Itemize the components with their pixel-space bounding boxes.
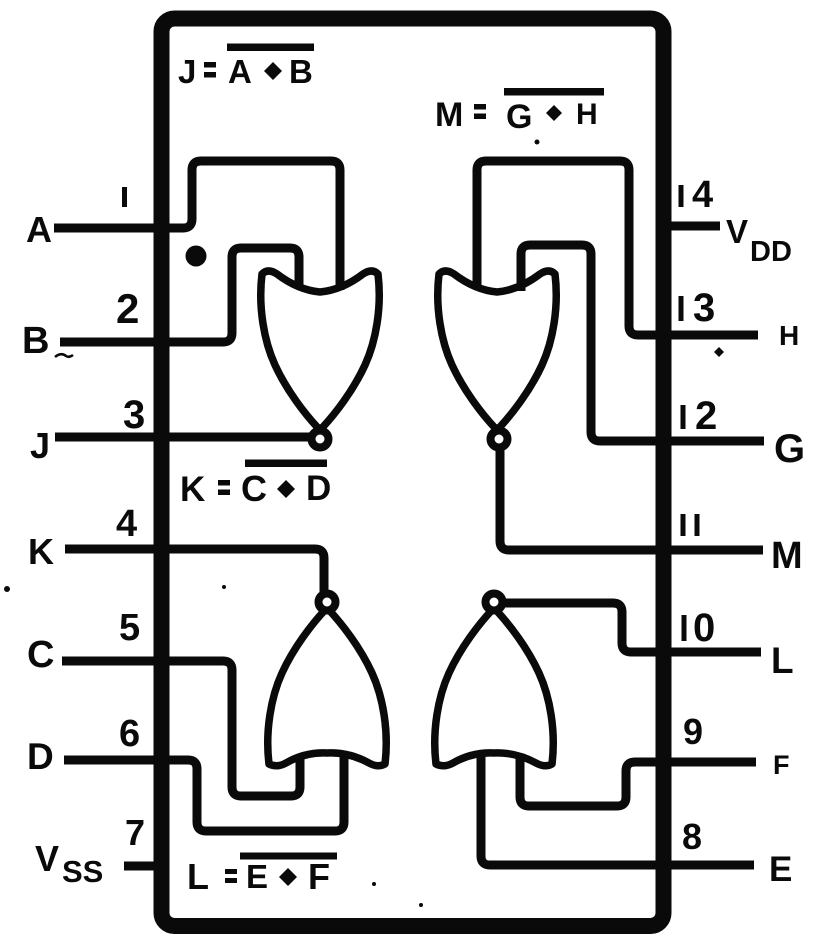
svg-text:SS: SS [62,854,103,889]
equation L = E+F [187,853,337,898]
svg-text:E: E [246,858,268,895]
svg-text:V: V [726,213,748,250]
svg-text:J: J [30,425,50,466]
svg-text:0: 0 [693,606,715,650]
package outline [162,19,664,927]
node marker dot near pin1 [186,246,207,267]
wire pin11 M output [500,446,763,550]
pin number 12 [683,394,717,438]
svg-text:2: 2 [116,285,139,332]
svg-text:3: 3 [693,286,715,330]
stray speck bottom2 [419,903,423,907]
svg-text:4: 4 [116,503,137,545]
stray speck left margin [4,586,10,592]
pin number 10 [684,606,715,650]
svg-text:C: C [27,634,54,676]
svg-text:H: H [779,320,799,351]
svg-text:5: 5 [119,607,140,649]
svg-text:6: 6 [119,713,140,755]
pin label VSS [35,838,103,889]
stray diamond speck under H wire [714,347,724,357]
svg-text:D: D [306,469,331,508]
wire pin6 D input [64,756,344,831]
svg-text:8: 8 [682,816,702,857]
stray speck inside left [222,585,226,589]
bubble U1 output [312,431,329,448]
svg-text:K: K [180,470,205,509]
svg-text:G: G [774,427,805,471]
stray speck top middle [535,140,540,145]
equation M = G+H [435,88,604,136]
svg-text:DD: DD [750,236,792,268]
svg-text:M: M [435,96,463,134]
svg-text:G: G [506,98,532,136]
pin label VDD [726,213,792,268]
equation J = A+B [178,44,314,91]
bubble U2 output [491,431,508,448]
svg-text:7: 7 [125,812,145,853]
svg-text:L: L [187,856,209,897]
pin number 13 [681,286,715,330]
pin number 14 [681,174,713,216]
stray mark tilde under B [55,354,73,357]
NOR gate U4 body [435,610,553,766]
svg-text:E: E [769,850,792,889]
NOR gate U2 body [438,271,556,428]
svg-text:F: F [308,856,330,897]
wire pin13 H input [477,161,758,335]
svg-text:F: F [773,750,790,780]
wire pin10 L output [502,603,761,652]
NOR gate U1 body [261,271,379,428]
bubble U3 output [319,594,336,611]
svg-text:H: H [576,98,598,131]
wire pin9 F input [520,754,756,806]
wire pin4 K output [65,549,324,596]
svg-text:L: L [771,640,794,681]
svg-text:J: J [178,53,196,90]
svg-text:M: M [771,535,803,577]
svg-text:C: C [241,468,267,509]
svg-text:A: A [26,209,52,250]
bubble U4 output [486,594,503,611]
svg-text:9: 9 [683,711,703,752]
svg-text:A: A [228,53,252,90]
wire pin12 G input [521,245,764,441]
equation K = C+D [180,460,331,510]
pin number 11 [683,514,697,536]
pin number 1 [122,187,127,207]
wire pin3 J output [55,433,312,442]
wire pin1 A input [54,161,340,290]
wire pin7 VSS stub [124,862,164,871]
stray speck bottom [372,882,376,886]
svg-text:D: D [27,736,54,777]
svg-text:B: B [22,320,49,362]
wire pin5 C input [62,661,300,796]
svg-text:V: V [35,838,59,879]
svg-text:K: K [28,531,54,572]
wire pin8 E input [481,754,754,865]
svg-text:4: 4 [692,174,713,216]
svg-text:2: 2 [695,394,717,438]
svg-text:3: 3 [123,393,145,437]
svg-text:B: B [289,53,313,90]
wire pin2 B input [60,248,299,342]
NOR gate U3 body [268,610,386,766]
wire pin14 VDD stub [659,222,720,231]
